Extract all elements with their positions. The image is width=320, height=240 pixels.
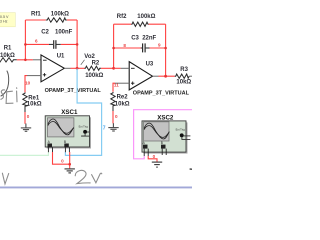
svg-text:100kΩ: 100kΩ — [51, 11, 69, 17]
resistor Re1 — [23, 92, 42, 107]
wire U3 inverting input — [114, 67, 121, 69]
svg-text:C3: C3 — [131, 35, 139, 41]
junction scope ground — [68, 163, 71, 166]
wire + input U3 — [115, 82, 129, 84]
resistor R2 — [84, 61, 103, 79]
svg-text:11: 11 — [114, 82, 119, 87]
svg-text:7: 7 — [103, 125, 106, 131]
wire feedback2 left vertical — [113, 24, 115, 68]
label V1 (yellow note) — [0, 13, 15, 27]
handwriting 2v — [75, 170, 102, 183]
svg-text:8: 8 — [123, 43, 126, 48]
svg-text:B: B — [64, 140, 66, 144]
taskbar line — [0, 187, 192, 189]
ground (Re1) — [21, 124, 31, 132]
wire R1 to node 6 — [17, 59, 33, 61]
svg-text:C2: C2 — [41, 30, 49, 36]
svg-text:10kΩ: 10kΩ — [115, 102, 130, 108]
resistor Re2 — [111, 92, 130, 108]
wire U1 output — [64, 67, 70, 69]
svg-text:XSC1: XSC1 — [61, 109, 78, 116]
stray mark right edge — [190, 168, 192, 170]
net label Vo2 — [81, 54, 96, 65]
ground (XSC2) — [152, 162, 162, 167]
wire XSC1 B input (cyan) — [65, 69, 101, 156]
wire feedback right vertical — [76, 20, 78, 68]
resistor Rf1 — [31, 11, 69, 22]
junction C2 right — [76, 43, 79, 46]
svg-text:Vo2: Vo2 — [84, 54, 95, 60]
svg-text:0: 0 — [61, 158, 64, 163]
wire XSC1 A input (green) — [0, 152, 48, 155]
svg-text:Ext Trig: Ext Trig — [176, 128, 186, 132]
wire XSC1 A- to ground (red) — [53, 152, 70, 164]
wire Re1 to ground — [24, 107, 26, 113]
svg-text:73 Hz: 73 Hz — [0, 19, 8, 23]
handwriting sci — [1, 88, 17, 104]
svg-text:0: 0 — [115, 114, 118, 119]
svg-text:22nF: 22nF — [142, 35, 156, 41]
svg-text:100nF: 100nF — [55, 30, 73, 36]
wire + input U1 — [27, 75, 41, 77]
ground (XSC1) — [65, 169, 75, 173]
svg-text:R2: R2 — [92, 61, 100, 67]
wire feedback2 right vertical — [165, 24, 167, 76]
junction C3 right — [164, 47, 167, 50]
wire XSC2 A input (magenta) — [134, 110, 192, 159]
resistor Rf2 — [117, 14, 156, 27]
wire feedback2 top — [114, 23, 132, 25]
ground (Re2) — [108, 123, 118, 131]
svg-text:Re1: Re1 — [28, 95, 40, 101]
oscilloscope XSC2 — [142, 115, 190, 156]
op-amp U3 — [129, 62, 189, 97]
svg-text:R3: R3 — [180, 67, 188, 73]
wire feedback left vertical — [24, 20, 26, 60]
resistor R3 — [175, 67, 192, 85]
svg-text:U3: U3 — [146, 62, 154, 68]
svg-text:0: 0 — [27, 114, 30, 119]
op-amp U1 — [41, 54, 101, 95]
svg-text:9: 9 — [158, 43, 161, 48]
svg-text:Re2: Re2 — [117, 94, 129, 100]
wire Re2 to ground — [112, 106, 114, 111]
wire C3 right — [150, 47, 166, 49]
wire C2 branch left — [25, 43, 49, 45]
svg-text:10kΩ: 10kΩ — [176, 79, 191, 85]
svg-text:Rf1: Rf1 — [31, 11, 41, 17]
svg-text:00.5 V: 00.5 V — [0, 15, 9, 19]
voltage source V1 — [1, 71, 9, 97]
wire U3 output — [153, 75, 159, 77]
svg-text:100kΩ: 100kΩ — [137, 14, 155, 20]
svg-text:Rf2: Rf2 — [117, 14, 127, 20]
svg-text:6: 6 — [35, 38, 38, 43]
junction node 6 — [24, 59, 27, 62]
svg-text:10kΩ: 10kΩ — [27, 102, 42, 108]
resistor R1 — [0, 46, 17, 62]
wire XSC1 B- to ground (red) — [69, 152, 71, 168]
svg-text:10kΩ: 10kΩ — [0, 53, 15, 59]
svg-text:OPAMP_3T_VIRTUAL: OPAMP_3T_VIRTUAL — [45, 88, 102, 94]
junction U3 inverting node — [112, 67, 115, 70]
junction U1 output — [76, 67, 79, 70]
wire R2 to U3 node — [101, 67, 114, 69]
wire feedback top — [25, 19, 45, 21]
svg-text:100kΩ: 100kΩ — [85, 73, 103, 79]
capacitor C2 — [41, 30, 72, 49]
wire C2 right — [61, 43, 77, 45]
svg-text:U1: U1 — [57, 54, 65, 60]
wire C3 branch left — [114, 47, 142, 49]
svg-text:0: 0 — [153, 154, 156, 159]
svg-text:OPAMP_3T_VIRTUAL: OPAMP_3T_VIRTUAL — [133, 90, 190, 96]
svg-text:10: 10 — [25, 80, 31, 85]
capacitor C3 — [131, 35, 156, 52]
svg-text:Ext Trig: Ext Trig — [79, 124, 89, 128]
svg-text:B: B — [161, 141, 163, 145]
node junction at 6/C2 — [24, 43, 27, 46]
handwriting V — [2, 173, 8, 184]
junction U3 output — [164, 75, 167, 78]
junction C3 left — [112, 47, 115, 50]
oscilloscope XSC1 — [45, 109, 91, 152]
wire R3 to edge — [189, 75, 192, 77]
wire XSC2 A- to ground (red) — [148, 156, 157, 162]
svg-text:R1: R1 — [4, 46, 12, 52]
